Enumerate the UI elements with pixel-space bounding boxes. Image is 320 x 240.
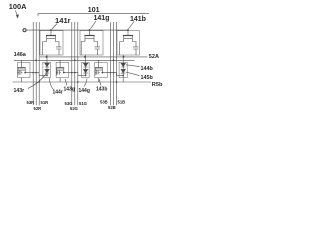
leader arrow from 100A [16,11,19,18]
wire: gate select line [26,29,128,31]
pixel box 141r [40,31,63,55]
wire: 143r stub to bottom line [21,78,23,82]
svg-text:141r: 141r [55,16,71,25]
svg-text:143r: 143r [14,88,25,94]
capacitor 143r cell [18,70,23,74]
diode box G [82,62,90,77]
wire: top bus 101 [38,14,149,16]
svg-text:52B: 52B [108,105,116,110]
capacitor in 141g cell [95,47,101,55]
leader 143g [65,79,67,86]
node dot cell3 gate tap [127,29,129,31]
node dot 146xB [113,59,115,61]
LED stack R [45,55,49,75]
terminal Q circle [23,29,26,32]
node dot 143g source [63,72,65,74]
node dot H4 G [77,81,79,83]
wire: 143b stub to bottom line [98,78,100,82]
svg-text:143g: 143g [64,87,75,93]
svg-text:52G: 52G [70,106,78,111]
node dot 143b source [102,72,104,74]
wire: anode row line to 52A [40,56,147,58]
leader 145b [126,72,140,76]
wire: bottom row line to R5b [13,81,152,83]
svg-text:144b: 144b [141,66,154,72]
svg-text:52A: 52A [149,54,159,60]
node dot R cathode [46,75,48,77]
svg-text:141b: 141b [130,16,146,23]
diode box R [43,62,51,77]
leader 143r [28,74,47,89]
leader 141b [129,22,135,29]
transistor 141r [43,30,59,55]
capacitor 143b cell [95,70,100,74]
node dot R drain [46,56,48,58]
svg-text:52R: 52R [34,106,42,111]
pixel box 141g [80,31,103,55]
node dot cell1 gate tap [50,29,52,31]
svg-text:144r: 144r [53,90,63,96]
wire: 143b to LED stack [102,73,123,76]
capacitor in 141r cell [56,47,62,55]
svg-text:53B: 53B [100,100,108,105]
LED stack G [83,55,87,75]
svg-text:51R: 51R [41,100,49,105]
switch box 143g [56,62,69,77]
leader 141g [91,21,97,29]
transistor 143g [57,60,64,75]
transistor 141b [120,30,136,55]
node dot B cathode [122,75,124,77]
transistor 141g [81,30,97,55]
leader 144r [49,78,54,90]
wire: column lines 53B 52B 51B [111,22,117,105]
wire: 143g to LED stack [64,73,86,76]
node dot 146xG [74,59,76,61]
node dot wire 53B [110,72,112,74]
transistor 143r [18,60,25,75]
wire: column lines 53R 52R 51R [33,22,39,105]
node dot wire 53G [71,72,73,74]
node dot G cathode [85,75,87,77]
svg-text:143b: 143b [96,87,107,93]
svg-text:53R: 53R [27,100,35,105]
pixel box 141b [117,31,140,55]
leader 143b [99,79,101,86]
node dot wire 52G [74,72,76,74]
node dot wire 52B [113,72,115,74]
node dot 143r source [24,72,26,74]
switch box 143b [95,62,108,77]
svg-text:100A: 100A [9,2,27,11]
diode box B [119,62,127,77]
node dot cell2 gate tap [89,29,91,31]
svg-text:51G: 51G [79,101,87,106]
svg-text:145b: 145b [141,75,154,81]
node dot H4 B [116,81,118,83]
node dot G drain [84,56,86,58]
node dot H4 R [38,81,40,83]
capacitor in 141b cell [133,47,139,55]
wire: row line 146 [14,59,134,61]
node dot wire 52R [35,72,37,74]
switch box 143r [18,62,31,77]
wire: 143r to LED stack [25,73,47,76]
leader 144g [84,79,87,87]
LED stack B 144b 145b [121,55,125,82]
svg-text:146a: 146a [14,52,27,58]
svg-text:101: 101 [88,7,100,14]
leader 144b [126,65,140,67]
node dot B drain [123,56,125,58]
transistor 143b [95,60,102,75]
svg-text:51B: 51B [118,100,126,105]
capacitor 143g cell [56,70,61,74]
wire: 143g stub to bottom line [59,78,61,82]
svg-text:144g: 144g [79,88,90,94]
node dot wire 53R [32,72,34,74]
svg-text:R5b: R5b [152,82,163,88]
leader 141r [52,24,57,30]
node dot 146xR [35,59,37,61]
wire: column lines 53G 52G 51G [72,22,78,105]
